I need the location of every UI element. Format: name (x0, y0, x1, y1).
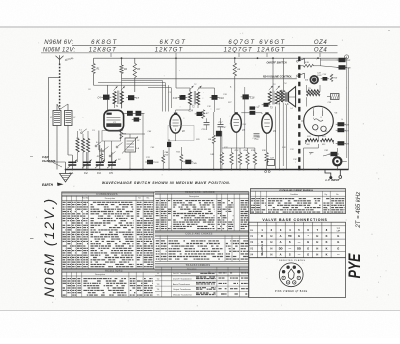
svg-text:L.S: L.S (285, 104, 289, 106)
vibrator Y3 (305, 75, 319, 84)
capacitor C7 (128, 95, 134, 100)
capacitor C22 electrolytic (268, 160, 275, 166)
svg-text:H: H (316, 240, 318, 244)
svg-text:G: G (307, 246, 309, 250)
page bottom edge (0, 310, 400, 312)
svg-text:Description: Description (105, 197, 116, 200)
output transformer T4 (277, 58, 285, 105)
earth symbol (60, 170, 72, 183)
svg-text:H: H (270, 234, 272, 238)
svg-text:C21: C21 (256, 107, 260, 109)
capacitor C29 (338, 141, 345, 145)
svg-text:6Q7GT: 6Q7GT (228, 40, 255, 46)
junction (257, 57, 259, 59)
wavechange switch S1 (95, 142, 123, 158)
svg-text:OZ4: OZ4 (314, 40, 328, 46)
svg-text:*: * (308, 234, 309, 238)
svg-text:C21: C21 (347, 60, 351, 62)
grid stopper R12 (250, 111, 256, 115)
resistor R7 (202, 110, 205, 119)
svg-text:2T = 465 kHz: 2T = 465 kHz (356, 192, 362, 229)
aerial coil L2 (57, 104, 72, 155)
resistor R11b (220, 153, 223, 165)
variable capacitor C3 (tuning gang) (95, 145, 105, 175)
svg-text:A: A (280, 253, 282, 257)
svg-text:G: G (337, 240, 339, 244)
HT bus (top) (94, 57, 346, 59)
octal socket diagram (279, 263, 303, 287)
wire drops (234, 58, 236, 63)
svg-text:S.W.: S.W. (305, 62, 310, 64)
scan paper texture (0, 0, 1, 1)
svg-text:K: K (326, 246, 328, 250)
svg-text:Output Transformer: Output Transformer (173, 288, 191, 291)
svg-text:6K7GT: 6K7GT (160, 40, 187, 46)
svg-text:G: G (337, 246, 339, 250)
svg-text:No.: No. (147, 198, 150, 200)
resistor R14 (246, 153, 249, 165)
svg-text:12K8GT: 12K8GT (89, 47, 117, 53)
svg-text:PYE: PYE (346, 253, 364, 279)
svg-text:H: H (270, 246, 272, 250)
svg-text:C16: C16 (219, 97, 224, 100)
svg-text:* DENOTES PLATES: * DENOTES PLATES (277, 259, 306, 262)
header band gray fills (62, 189, 346, 272)
resistor R3 (134, 58, 136, 63)
resistor R11 (180, 155, 183, 163)
svg-text:C2.: C2. (84, 171, 89, 175)
svg-text:K: K (326, 234, 328, 238)
wire drop to T2 (175, 58, 177, 88)
svg-text:N96M 6V:: N96M 6V: (44, 40, 73, 46)
svg-text:L.T. INPUT: L.T. INPUT (326, 178, 340, 182)
svg-text:H: H (316, 234, 318, 238)
wire T3 secondary drop (275, 107, 277, 170)
junction (121, 57, 123, 59)
coils rows (156, 241, 248, 259)
resistor R13 (238, 153, 241, 165)
svg-text:6V6GT: 6V6GT (259, 40, 286, 46)
svg-text:Aerial Transformer: Aerial Transformer (173, 283, 190, 286)
resistor R12 (230, 153, 233, 165)
valve socket panel (249, 258, 346, 298)
svg-text:C31: C31 (290, 149, 294, 151)
capacitor C45 (185, 160, 191, 164)
capacitor C30 (331, 152, 338, 156)
resistors rows (pseudo text) (63, 279, 153, 296)
T5 secondary windings (306, 136, 334, 146)
svg-text:D: D (261, 234, 263, 238)
capacitor C17b (216, 131, 222, 137)
transformers table (155, 264, 249, 297)
svg-text:H: H (270, 240, 272, 244)
junction (317, 57, 319, 59)
svg-text:VALVE BASE CONNECTIONS: VALVE BASE CONNECTIONS (262, 218, 327, 222)
svg-text:K: K (326, 253, 328, 257)
svg-text:TD: TD (288, 234, 292, 238)
svg-text:C3.: C3. (97, 171, 102, 175)
svg-text:Tol.: Tol. (138, 198, 141, 200)
capacitor C9 (134, 117, 140, 121)
transformer T5 primary (307, 85, 321, 96)
variable capacitor C1 (tuning gang) (68, 155, 78, 175)
svg-text:Description: Description (189, 195, 199, 198)
svg-text:CHASSIS: CHASSIS (42, 159, 55, 163)
screen bus (122, 78, 297, 80)
aerial coil L1 (53, 104, 61, 170)
wires V2 down (168, 147, 170, 169)
svg-text:—: — (298, 254, 301, 257)
voltage readings table (250, 189, 345, 214)
svg-text:PINS VIEWED AT BASE: PINS VIEWED AT BASE (275, 290, 308, 293)
capacitor C18 (243, 94, 249, 99)
svg-text:H: H (316, 246, 318, 250)
link wire resistor tops (222, 147, 255, 149)
screened aerial lead-in (59, 64, 61, 110)
svg-text:OZ4: OZ4 (314, 47, 328, 53)
svg-text:VOLTAGE AND CURRENT READINGS: VOLTAGE AND CURRENT READINGS (279, 189, 313, 192)
leader ticks (111, 53, 320, 57)
svg-text:S: S (289, 253, 291, 257)
output terminals (265, 171, 267, 173)
nested band-switch wiring corners (98, 80, 171, 111)
wire C16 drop (214, 88, 216, 95)
svg-text:—: — (289, 247, 292, 250)
svg-text:—: — (298, 241, 301, 244)
capacitor C8 (127, 111, 133, 116)
capacitor C4 (103, 95, 110, 100)
svg-text:Description: Description (95, 273, 105, 276)
choke L5 (304, 64, 314, 67)
variable capacitor C2 (tuning gang) (82, 152, 92, 175)
T5 core (331, 94, 340, 100)
wire aerial tap to left rail (49, 76, 60, 78)
cathode wires (104, 141, 106, 162)
svg-text:VALVE TYPE: VALVE TYPE (261, 243, 264, 255)
svg-text:12A6GT: 12A6GT (257, 47, 286, 53)
capacitor above stopper (250, 106, 256, 109)
svg-text:12Q7GT: 12Q7GT (224, 47, 253, 53)
resistors table (62, 269, 249, 297)
svg-text:H: H (316, 253, 318, 257)
resistor R4 (121, 58, 123, 65)
margin specks (30, 30, 390, 239)
svg-text:K: K (326, 240, 328, 244)
condensers rows (pseudo text) (63, 202, 153, 266)
switch contacts at bulkhead (296, 59, 304, 79)
resistor R1 (93, 58, 95, 63)
svg-text:G: G (337, 234, 339, 238)
svg-text:A: A (280, 240, 282, 244)
svg-text:N06M (12V.): N06M (12V.) (41, 197, 57, 297)
wire drops mid (244, 87, 246, 148)
resistor R9 (212, 135, 215, 143)
wire into chassis bus (49, 161, 66, 163)
RF coils L3a/L4a with switch S1a (76, 129, 90, 170)
svg-text:D: D (261, 240, 263, 244)
RF transformer T1 (113, 86, 125, 108)
svg-text:R24 VOLUME CONTROL: R24 VOLUME CONTROL (263, 76, 293, 79)
svg-text:C18: C18 (250, 96, 255, 99)
svg-text:G: G (298, 234, 300, 238)
svg-text:2nd I.F. Transformer: 2nd I.F. Transformer (173, 278, 192, 281)
chassis/ground bus (65, 169, 349, 171)
capacitors C19 C20 (254, 134, 260, 141)
valve V3 12Q7GT (231, 112, 245, 132)
IF transformer T2 (176, 86, 202, 109)
junction (175, 57, 177, 59)
resistor R6a (120, 129, 123, 139)
svg-text:12K7GT: 12K7GT (155, 47, 184, 53)
resistor R15 (253, 153, 256, 165)
svg-text:H: H (270, 253, 272, 257)
misc component labels (50, 74, 344, 164)
wires to bus below V4 (279, 103, 281, 170)
valve V4 12A6GT (262, 112, 277, 133)
grid cap wire (175, 110, 177, 114)
valve line-up labels row 2 (12V models) (43, 47, 328, 53)
wire speaker return (285, 105, 287, 170)
capacitor C28 (339, 65, 346, 69)
rule under row 1 (72, 44, 338, 46)
bus junction dots (65, 169, 339, 171)
valve V2 12K7GT (170, 113, 185, 134)
capacitor C16 (212, 95, 218, 100)
terminal A (345, 55, 349, 59)
page top edge (0, 26, 400, 28)
rectifier valve OZ4 (304, 106, 338, 136)
svg-text:C13: C13 (173, 97, 178, 100)
capacitor C15 (202, 118, 210, 131)
svg-text:Condition: Condition (290, 193, 298, 196)
coil can under V1 (102, 131, 121, 141)
resistor R2 (100, 154, 103, 159)
aerial symbol (56, 55, 75, 63)
capacitor C10 (136, 111, 142, 116)
left rail wire (48, 77, 50, 162)
pilot lamp (333, 157, 341, 165)
scan dirt specks (36, 33, 388, 306)
junction (234, 57, 236, 59)
resistor R16 (265, 153, 268, 163)
capacitor C44 (167, 142, 171, 147)
junction (272, 57, 274, 59)
capacitor C26 (338, 122, 345, 126)
svg-text:S: S (289, 240, 291, 244)
capacitor C21a (264, 103, 269, 107)
svg-text:C1.: C1. (70, 171, 75, 175)
capacitor C27 (338, 128, 345, 132)
capacitor C17 (218, 118, 224, 170)
svg-text:G: G (307, 240, 309, 244)
loudspeaker (285, 87, 296, 107)
resistor R10 (162, 156, 165, 164)
svg-text:C11: C11 (146, 157, 150, 159)
IF transformer T3 (268, 58, 280, 109)
wire C4 to V1 (107, 85, 109, 94)
capacitor C11 (147, 160, 153, 164)
oscillator coil L4 (122, 137, 140, 154)
voltage readings rows (251, 199, 344, 213)
svg-text:L1: L1 (50, 117, 52, 119)
svg-text:A: A (280, 234, 282, 238)
battery lead terminals (325, 170, 342, 180)
capacitor C21 (339, 58, 346, 62)
svg-text:EARTH: EARTH (42, 183, 54, 187)
coils table (155, 232, 249, 262)
rule under row 2 (41, 52, 338, 54)
valve base connections grid (249, 222, 346, 258)
coil can outline (168, 126, 194, 141)
svg-text:Vibrator Transformer: Vibrator Transformer (173, 293, 192, 296)
capacitor C13 (180, 95, 186, 100)
resistor R19 (330, 74, 333, 82)
header band double rules (62, 192, 249, 273)
svg-text:Part No.: Part No. (82, 197, 89, 200)
wires V1 anode/screen (124, 112, 127, 114)
valve V1 12K8GT (104, 110, 124, 130)
capacitor C23 (323, 77, 328, 81)
wire osc (129, 152, 131, 170)
svg-text:ON/OFF SWITCH: ON/OFF SWITCH (267, 61, 287, 64)
condensers table (62, 192, 154, 269)
svg-text:—: — (337, 254, 340, 257)
svg-text:R21: R21 (322, 136, 326, 138)
transformers rows (157, 272, 249, 297)
parts list table block (62, 192, 249, 297)
svg-text:DD: DD (297, 246, 301, 250)
valve line-up labels row 1 (6V models) (44, 40, 327, 46)
resistors graded rows (156, 201, 248, 229)
resistors graded table (155, 191, 249, 231)
svg-text:WAVECHANGE SWITCH SHOWN IN MED: WAVECHANGE SWITCH SHOWN IN MEDIUM WAVE P… (102, 181, 231, 185)
svg-text:DD: DD (279, 246, 283, 250)
svg-text:N06M 12V:: N06M 12V: (43, 47, 76, 53)
variable capacitor C5 (tuning gang) (107, 152, 117, 175)
svg-text:6K8GT: 6K8GT (91, 40, 118, 46)
svg-text:C5.: C5. (109, 171, 114, 175)
power wiring (301, 58, 349, 169)
svg-text:G: G (307, 253, 309, 257)
svg-text:R11: R11 (176, 152, 180, 154)
AVC line (94, 84, 167, 86)
screen bulkhead (dashed) (298, 57, 300, 172)
svg-text:S.1: S.1 (79, 130, 82, 132)
